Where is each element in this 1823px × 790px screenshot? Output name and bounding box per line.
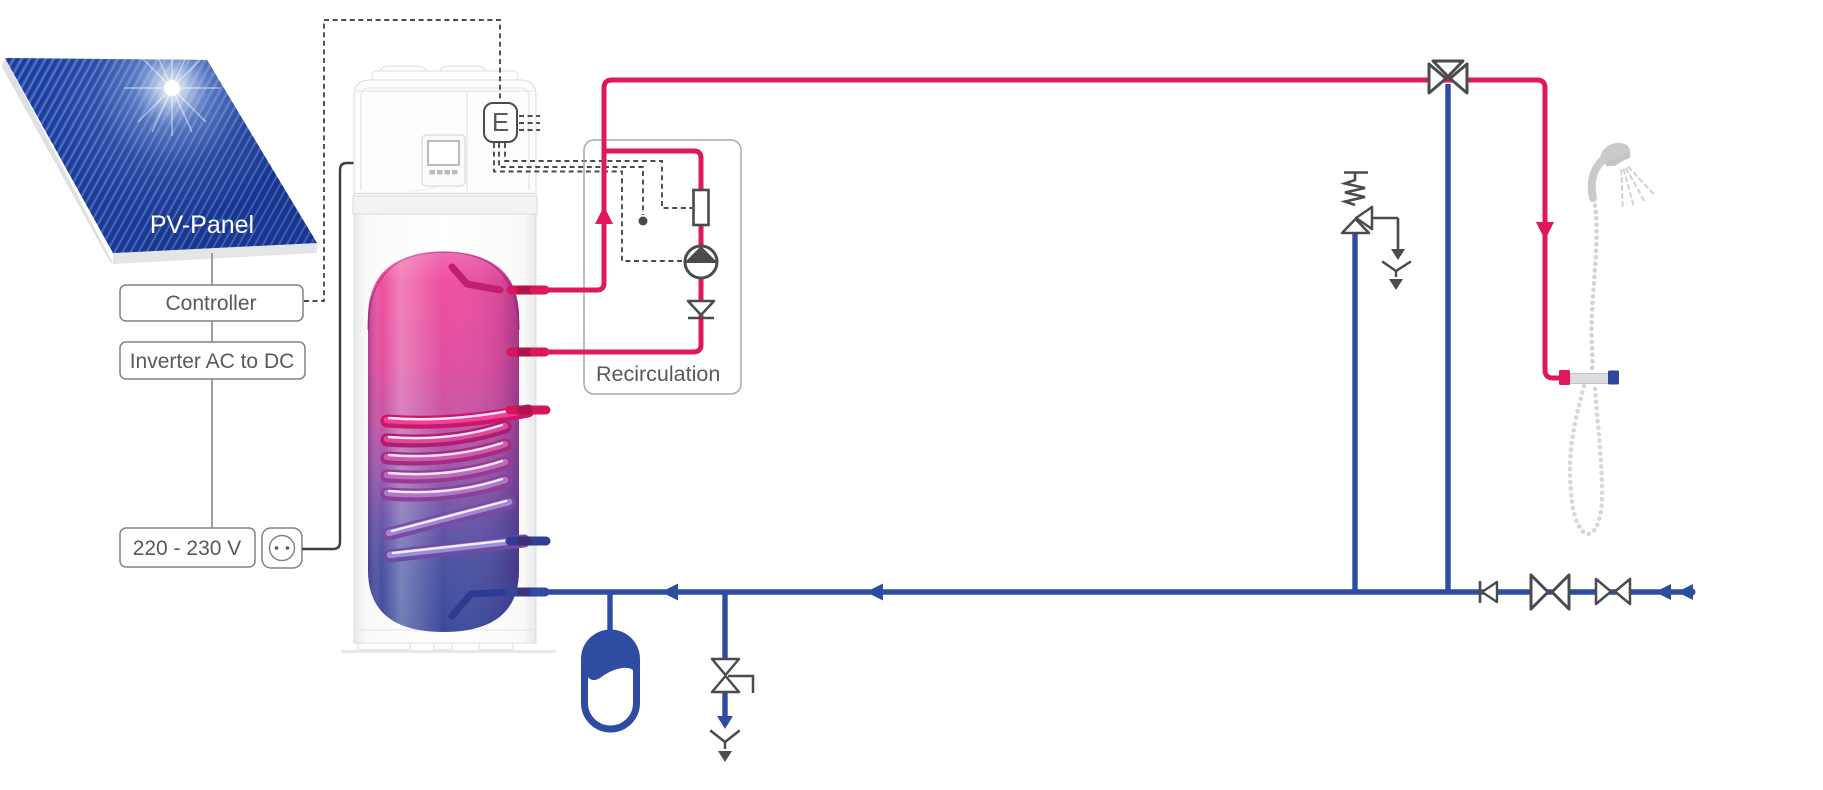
svg-text:Recirculation: Recirculation bbox=[596, 362, 720, 386]
svg-text:220 - 230 V: 220 - 230 V bbox=[133, 537, 242, 560]
svg-text:Inverter AC to DC: Inverter AC to DC bbox=[130, 350, 295, 373]
svg-text:PV-Panel: PV-Panel bbox=[150, 211, 254, 239]
svg-text:E: E bbox=[492, 107, 509, 137]
svg-text:Controller: Controller bbox=[165, 292, 256, 315]
